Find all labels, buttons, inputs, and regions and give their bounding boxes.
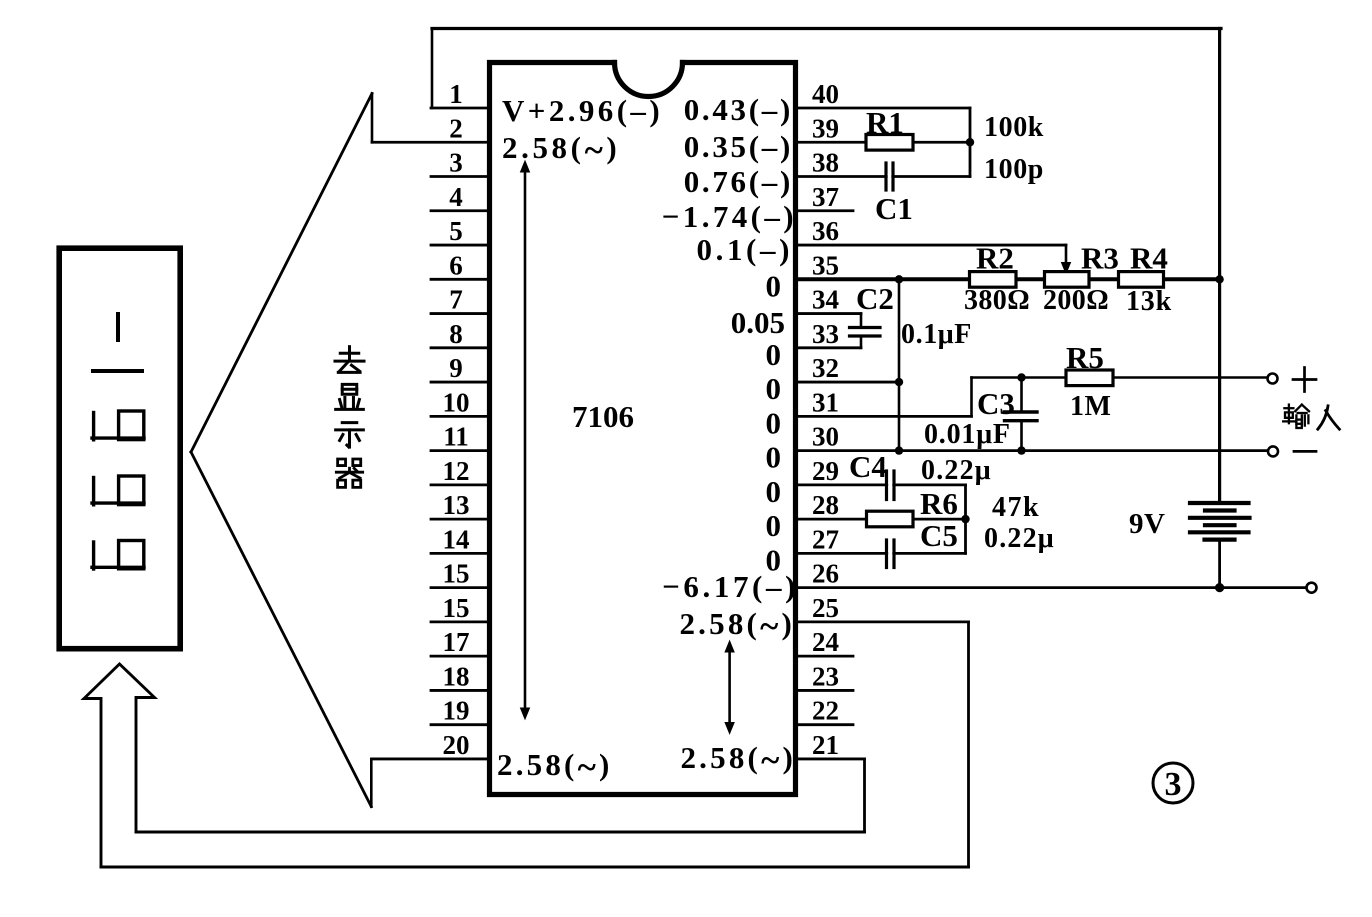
svg-text:34: 34	[812, 285, 839, 315]
svg-text:32: 32	[812, 353, 839, 383]
svg-text:0.76(–): 0.76(–)	[684, 164, 793, 199]
svg-text:R5: R5	[1066, 340, 1104, 375]
svg-text:3: 3	[1165, 766, 1182, 803]
svg-text:30: 30	[812, 422, 839, 452]
svg-text:R3: R3	[1081, 241, 1119, 276]
svg-text:C5: C5	[920, 518, 958, 553]
svg-text:18: 18	[443, 661, 470, 691]
svg-text:17: 17	[443, 627, 470, 657]
svg-text:37: 37	[812, 182, 839, 212]
svg-text:28: 28	[812, 490, 839, 520]
svg-text:1: 1	[449, 79, 463, 109]
svg-text:20: 20	[443, 730, 470, 760]
svg-text:6: 6	[449, 250, 463, 280]
svg-text:R2: R2	[976, 241, 1014, 276]
svg-text:380Ω: 380Ω	[964, 285, 1030, 316]
svg-text:−1.74(–): −1.74(–)	[662, 199, 797, 234]
svg-text:27: 27	[812, 524, 839, 554]
svg-text:2.58(~): 2.58(~)	[679, 606, 795, 646]
svg-text:26: 26	[812, 559, 839, 589]
svg-text:5: 5	[449, 216, 463, 246]
svg-text:33: 33	[812, 319, 839, 349]
svg-text:0: 0	[766, 405, 782, 440]
svg-text:40: 40	[812, 79, 839, 109]
svg-text:10: 10	[443, 387, 470, 417]
svg-text:0.01μF: 0.01μF	[924, 419, 1011, 450]
svg-text:100p: 100p	[984, 154, 1044, 185]
svg-text:29: 29	[812, 456, 839, 486]
svg-text:36: 36	[812, 216, 839, 246]
svg-text:C2: C2	[856, 281, 894, 316]
svg-text:200Ω: 200Ω	[1043, 285, 1109, 316]
svg-text:C1: C1	[875, 191, 913, 226]
svg-text:23: 23	[812, 661, 839, 691]
svg-text:13k: 13k	[1126, 286, 1172, 317]
svg-text:15: 15	[443, 559, 470, 589]
svg-text:0.1μF: 0.1μF	[901, 319, 972, 350]
svg-text:4: 4	[449, 182, 463, 212]
svg-text:9: 9	[449, 353, 463, 383]
svg-text:C3: C3	[977, 386, 1015, 421]
svg-text:7106: 7106	[572, 399, 634, 434]
svg-text:0: 0	[766, 337, 782, 372]
svg-text:0: 0	[766, 440, 782, 475]
svg-text:2.58(~): 2.58(~)	[680, 740, 796, 780]
svg-text:0.22μ: 0.22μ	[984, 523, 1055, 554]
svg-text:2.58(~): 2.58(~)	[502, 130, 620, 170]
svg-text:25: 25	[812, 593, 839, 623]
svg-text:R1: R1	[866, 105, 904, 140]
svg-text:C4: C4	[849, 449, 887, 484]
svg-text:0: 0	[766, 268, 782, 303]
svg-text:7: 7	[449, 285, 463, 315]
svg-text:0: 0	[766, 508, 782, 543]
svg-text:1M: 1M	[1070, 391, 1111, 422]
svg-text:3: 3	[449, 148, 463, 178]
svg-text:11: 11	[443, 422, 469, 452]
svg-text:21: 21	[812, 730, 839, 760]
svg-text:13: 13	[443, 490, 470, 520]
svg-text:0.35(–): 0.35(–)	[684, 129, 793, 164]
svg-text:15: 15	[443, 593, 470, 623]
svg-text:−6.17(–): −6.17(–)	[662, 569, 799, 604]
svg-text:8: 8	[449, 319, 463, 349]
svg-text:R6: R6	[920, 486, 958, 521]
svg-text:22: 22	[812, 696, 839, 726]
svg-text:0.1(–): 0.1(–)	[697, 232, 794, 267]
svg-text:0: 0	[766, 371, 782, 406]
svg-text:9V: 9V	[1129, 508, 1165, 540]
svg-text:38: 38	[812, 148, 839, 178]
svg-text:2: 2	[449, 113, 463, 143]
svg-text:2.58(~): 2.58(~)	[497, 747, 613, 787]
svg-text:100k: 100k	[984, 112, 1044, 143]
svg-text:35: 35	[812, 250, 839, 280]
svg-text:V+2.96(–): V+2.96(–)	[502, 93, 663, 128]
svg-text:14: 14	[443, 524, 470, 554]
svg-text:0.05: 0.05	[731, 305, 785, 340]
svg-text:12: 12	[443, 456, 470, 486]
svg-text:0: 0	[766, 474, 782, 509]
svg-text:39: 39	[812, 113, 839, 143]
svg-text:47k: 47k	[992, 492, 1040, 523]
svg-text:19: 19	[443, 696, 470, 726]
svg-text:24: 24	[812, 627, 839, 657]
svg-text:0.43(–): 0.43(–)	[684, 92, 793, 127]
svg-text:0.22μ: 0.22μ	[921, 455, 992, 486]
svg-text:R4: R4	[1130, 241, 1168, 276]
svg-text:31: 31	[812, 387, 839, 417]
